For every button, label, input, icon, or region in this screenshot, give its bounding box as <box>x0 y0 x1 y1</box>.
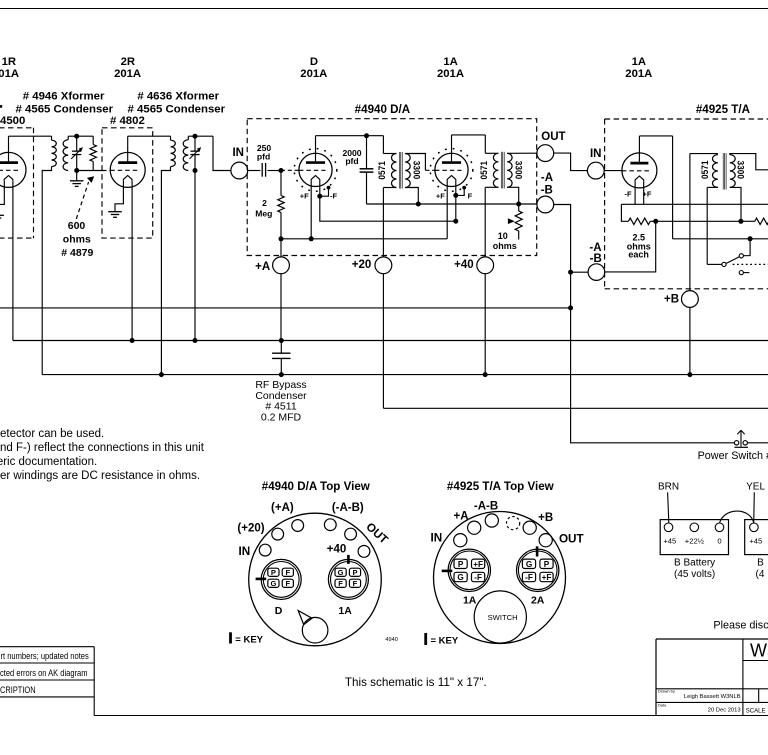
svg-text:201A: 201A <box>114 68 141 80</box>
svg-text:eric documentation.: eric documentation. <box>0 456 97 468</box>
svg-text:Drawn by: Drawn by <box>658 689 675 694</box>
svg-text:(+20): (+20) <box>237 523 264 535</box>
svg-text:+40: +40 <box>454 259 474 271</box>
svg-text:+45: +45 <box>749 537 762 546</box>
svg-text:+B: +B <box>538 512 553 524</box>
svg-text:# 4636 Xformer: # 4636 Xformer <box>137 91 219 103</box>
svg-text:0571: 0571 <box>377 161 387 180</box>
svg-text:-A: -A <box>589 242 601 254</box>
svg-text:Power Switch # 41: Power Switch # 41 <box>698 450 768 462</box>
svg-text:# 4879: # 4879 <box>61 247 93 259</box>
svg-text:SWITCH: SWITCH <box>488 613 518 622</box>
svg-text:B Battery: B Battery <box>674 558 715 569</box>
svg-text:F: F <box>285 579 290 588</box>
svg-text:Please discard: Please discard <box>713 619 768 631</box>
svg-text:= KEY: = KEY <box>235 634 263 645</box>
svg-text:+A: +A <box>255 261 270 273</box>
svg-text:+22½: +22½ <box>685 537 705 546</box>
svg-text:+A: +A <box>453 511 468 523</box>
svg-text:YEL: YEL <box>746 481 765 492</box>
svg-text:-B: -B <box>541 185 553 197</box>
svg-text:and F-) reflect the connection: and F-) reflect the connections in this … <box>0 442 205 454</box>
svg-text:600: 600 <box>68 220 86 232</box>
svg-text:F: F <box>468 191 473 200</box>
svg-text:1A: 1A <box>443 56 457 68</box>
svg-text:G: G <box>338 568 344 577</box>
svg-text:#4925 T/A: #4925 T/A <box>696 103 751 116</box>
svg-text:201A: 201A <box>625 68 652 80</box>
svg-text:OUT: OUT <box>541 131 565 143</box>
svg-text:0: 0 <box>717 537 721 546</box>
svg-text:201A: 201A <box>437 68 464 80</box>
svg-text:(45 volts): (45 volts) <box>674 569 715 580</box>
svg-text:4940: 4940 <box>385 637 397 643</box>
svg-text:#4940 D/A: #4940 D/A <box>355 103 411 116</box>
svg-text:2A: 2A <box>531 595 545 607</box>
svg-text:2: 2 <box>262 198 267 208</box>
svg-text:SCALE: SCALE <box>746 708 766 714</box>
svg-text:(4: (4 <box>756 569 765 580</box>
svg-text:1R: 1R <box>2 56 16 68</box>
svg-text:+40: +40 <box>327 544 347 556</box>
svg-text:2R: 2R <box>121 56 135 68</box>
svg-text:+F: +F <box>542 573 552 582</box>
svg-text:F: F <box>353 579 358 588</box>
svg-text:3300: 3300 <box>412 161 422 180</box>
svg-text:10: 10 <box>498 231 508 241</box>
svg-text:-F: -F <box>525 573 533 582</box>
svg-text:# 4565 Condenser: # 4565 Condenser <box>128 104 226 116</box>
svg-text:B: B <box>757 558 764 569</box>
svg-text:each: each <box>628 250 649 260</box>
svg-text:1A: 1A <box>632 56 646 68</box>
svg-text:P: P <box>458 560 464 569</box>
svg-text:# 4802: # 4802 <box>110 115 145 127</box>
svg-text:BRN: BRN <box>658 481 679 492</box>
svg-text:P: P <box>544 560 550 569</box>
svg-text:0571: 0571 <box>700 160 710 179</box>
svg-text:G: G <box>457 573 463 582</box>
svg-text:0.2 MFD: 0.2 MFD <box>261 411 302 423</box>
svg-text:3300: 3300 <box>736 161 746 180</box>
svg-text:G: G <box>526 560 532 569</box>
svg-text:This schematic is 11" x 17".: This schematic is 11" x 17". <box>345 676 487 689</box>
svg-text:OUT: OUT <box>559 532 585 545</box>
svg-text:F: F <box>338 579 343 588</box>
svg-text:+F: +F <box>300 191 309 200</box>
svg-text:ohms: ohms <box>63 233 91 245</box>
svg-text:G: G <box>270 579 276 588</box>
svg-text:-F: -F <box>330 191 337 200</box>
svg-text:P: P <box>271 568 276 577</box>
svg-text:(-A-B): (-A-B) <box>332 502 364 514</box>
svg-text:# 4500: # 4500 <box>0 115 25 127</box>
svg-text:201A: 201A <box>0 68 19 80</box>
svg-text:P: P <box>352 568 357 577</box>
svg-text:+F: +F <box>436 191 445 200</box>
svg-text:-A: -A <box>541 172 553 184</box>
svg-text:pfd: pfd <box>257 151 270 161</box>
svg-text:Leigh Bassett W3NLB: Leigh Bassett W3NLB <box>684 694 741 700</box>
svg-text:F: F <box>285 568 290 577</box>
svg-text:1A: 1A <box>338 605 352 617</box>
svg-text:detector can be used.: detector can be used. <box>0 428 104 440</box>
svg-text:IN: IN <box>590 148 602 160</box>
svg-text:Date: Date <box>658 702 667 707</box>
svg-text:IN: IN <box>431 532 443 545</box>
svg-text:ohms: ohms <box>493 241 517 251</box>
svg-text:+45: +45 <box>663 537 676 546</box>
svg-text:# 4565 Condenser: # 4565 Condenser <box>16 104 114 116</box>
svg-text:CRIPTION: CRIPTION <box>0 685 36 695</box>
svg-text:-A-B: -A-B <box>474 501 498 513</box>
svg-text:+20: +20 <box>352 259 372 271</box>
svg-text:(+A): (+A) <box>271 502 294 514</box>
svg-text:20 Dec 2013: 20 Dec 2013 <box>708 708 741 714</box>
svg-text:-F: -F <box>474 573 482 582</box>
svg-text:# 4946 Xformer: # 4946 Xformer <box>23 91 105 103</box>
svg-text:3300: 3300 <box>513 161 523 180</box>
svg-text:0571: 0571 <box>479 161 489 180</box>
svg-text:pfd: pfd <box>345 156 358 166</box>
svg-text:+B: +B <box>664 294 679 306</box>
svg-text:+F: +F <box>473 560 483 569</box>
svg-text:Meg: Meg <box>255 209 272 219</box>
svg-text:D: D <box>310 56 318 68</box>
svg-text:ner windings are DC resistance: ner windings are DC resistance in ohms. <box>0 470 200 482</box>
svg-text:cted errors on AK diagram: cted errors on AK diagram <box>0 668 88 678</box>
svg-text:#4940 D/A Top View: #4940 D/A Top View <box>262 480 371 493</box>
svg-text:D: D <box>275 605 283 617</box>
svg-text:W3NLB: W3NLB <box>750 640 768 660</box>
svg-text:-F: -F <box>624 189 631 198</box>
svg-text:1A: 1A <box>463 595 477 607</box>
svg-text:rt numbers; updated notes: rt numbers; updated notes <box>1 651 90 661</box>
svg-text:IN: IN <box>232 147 244 159</box>
svg-text:IN: IN <box>239 545 251 558</box>
svg-text:= KEY: = KEY <box>431 636 459 647</box>
svg-text:201A: 201A <box>300 68 327 80</box>
svg-text:#4925 T/A Top View: #4925 T/A Top View <box>447 480 555 493</box>
